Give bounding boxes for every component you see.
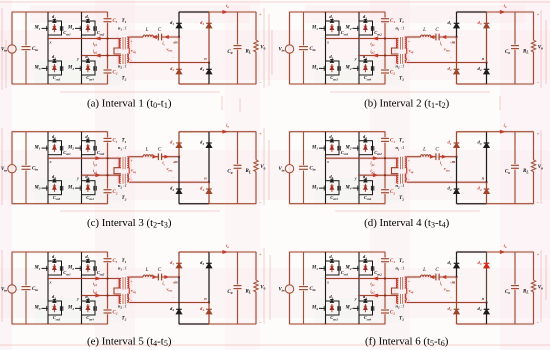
panel a: wire bottom rail left section <box>12 83 108 85</box>
svg-text:M1: M1 <box>33 26 40 31</box>
svg-text::1: :1 <box>123 304 127 309</box>
panel b: diode d4 <box>484 69 490 74</box>
panel c: MOSFET M_4 body diode <box>86 184 90 192</box>
panel b: MOSFET M_4 cell box <box>359 61 373 75</box>
svg-text:M4: M4 <box>344 66 351 71</box>
svg-text:M2: M2 <box>344 145 351 150</box>
panel e: diode d4 <box>206 309 212 314</box>
panel a: current arrow io <box>223 10 228 13</box>
panel c: transformer T2 <box>119 174 129 184</box>
svg-text:M2: M2 <box>67 266 74 271</box>
panel d: current arrow io <box>500 130 505 133</box>
panel c: diode d_2 on cell top <box>86 139 89 142</box>
panel d: wire T2 secondary return to node n <box>407 181 487 183</box>
panel a: wire T1 secondary to T2 secondary <box>128 48 130 54</box>
panel e: snubber capacitor plates of C_sn3 <box>60 306 62 311</box>
panel a: diode d_3 on cell top <box>53 60 56 63</box>
svg-text:Co: Co <box>227 170 232 175</box>
svg-text:Cin: Cin <box>309 287 315 292</box>
panel b: current arrow ip2 <box>373 54 378 57</box>
svg-text::1: :1 <box>401 304 405 309</box>
panel e: label vrec with polarity <box>166 281 174 300</box>
panel b: wire output top rail <box>487 11 534 13</box>
panel b: wire bridge leg A <box>325 12 327 84</box>
svg-text:Cin: Cin <box>32 167 38 172</box>
panel f: voltage source Vin <box>285 252 293 324</box>
panel b: diode d1 <box>454 23 460 28</box>
svg-text:x: x <box>326 40 329 45</box>
panel b: wire T1 primary to T2 primary <box>392 48 399 54</box>
panel c: MOSFET M_1 body diode <box>53 144 57 152</box>
panel f: wire T2 secondary return to node n <box>407 302 487 304</box>
panel b: diode d_2 on cell top <box>364 20 367 23</box>
svg-text:C1: C1 <box>113 259 118 264</box>
svg-text:Vo: Vo <box>260 286 265 291</box>
panel b: MOSFET M_2 cell box <box>359 21 373 35</box>
panel d: wire output top rail <box>487 131 534 133</box>
panel c: MOSFET M_4 gate lead <box>75 186 82 191</box>
svg-text:M3: M3 <box>33 66 40 71</box>
svg-text:Vin: Vin <box>1 48 7 53</box>
panel b: wire rectifier right leg lower <box>486 63 488 85</box>
panel b: MOSFET M_3 cell box <box>326 61 340 75</box>
panel c: capacitor Co <box>234 132 242 204</box>
panel f: transformer T2 <box>397 294 407 304</box>
panel a: MOSFET M_3 cell box <box>48 61 62 75</box>
panel d: inductor L <box>421 155 432 157</box>
panel d: wire node y to T2 primary <box>359 174 398 176</box>
panel e: wire output bottom rail <box>209 323 256 325</box>
panel c: wire rectifier right leg lower <box>208 182 210 204</box>
panel c: junction dots <box>106 156 210 184</box>
panel c: wire node y to T2 primary <box>82 174 121 176</box>
svg-text:RL: RL <box>246 50 252 55</box>
panel a: diode d_1 on cell top <box>53 20 56 23</box>
panel e: pink glow under circuit <box>12 252 256 324</box>
panel a: pink glow under circuit <box>12 12 256 84</box>
panel d: MOSFET M_2 cell box <box>359 141 373 155</box>
panel e: transformer T1 <box>119 277 129 290</box>
svg-text:−: − <box>450 296 452 300</box>
panel e: voltage source Vin <box>8 252 16 324</box>
svg-text:−: − <box>172 56 174 60</box>
svg-text:Vin: Vin <box>278 48 284 53</box>
panel b: diode d2 <box>454 69 460 74</box>
svg-text:Co: Co <box>505 50 510 55</box>
panel a: MOSFET M_2 cell box <box>82 21 96 35</box>
panel b: wire bridge leg B <box>358 12 360 84</box>
panel e: MOSFET M_4 gate lead <box>75 306 82 311</box>
panel a: capacitor C2 branch <box>104 56 112 85</box>
panel b: current arrow is right of C <box>442 35 446 38</box>
panel a: MOSFET M_3 gate lead <box>42 66 49 71</box>
panel e: wire output top rail <box>209 251 256 253</box>
svg-text:−: − <box>172 296 174 300</box>
svg-text:m: m <box>174 280 178 285</box>
panel e: diode d_2 on cell top <box>86 260 89 263</box>
panel d: diode d_2 on cell top <box>364 139 367 142</box>
panel a: wire C to node m <box>162 36 179 38</box>
panel b: capacitor Co <box>511 12 519 84</box>
panel a: snubber capacitor plates of C_sn4 <box>94 66 96 71</box>
panel b: MOSFET M_4 body diode <box>364 64 368 72</box>
panel d: resistor RL <box>531 132 535 204</box>
panel e: MOSFET M_1 body diode <box>53 264 57 272</box>
svg-text::1: :1 <box>123 266 127 271</box>
panel d: diode d_4 on cell top <box>364 179 367 182</box>
panel c: diode d_1 on cell top <box>53 139 56 142</box>
panel e: capacitor C <box>158 274 161 281</box>
panel b: wire between node wires on clamp line <box>384 39 386 56</box>
svg-text:Vo: Vo <box>260 46 265 51</box>
panel a: wire output bottom rail <box>209 83 256 85</box>
panel b: diode d_4 on cell top <box>364 60 367 63</box>
panel b: MOSFET M_3 gate lead <box>319 66 326 71</box>
panel f: wire T1 primary to T2 primary <box>392 288 399 294</box>
panel e: current arrow io <box>223 250 228 253</box>
panel d: wire bottom rail left section <box>290 203 386 205</box>
panel a: MOSFET M_3 body diode <box>53 64 57 72</box>
panel c: MOSFET M_2 body diode <box>86 144 90 152</box>
panel f: current arrow ip2 <box>373 294 378 297</box>
svg-text:C1: C1 <box>113 19 118 24</box>
panel b: wire top rail left section <box>290 11 386 13</box>
panel b: label vrec with polarity <box>444 41 452 60</box>
panel e: wire node x to T1 primary <box>48 278 121 280</box>
panel d: capacitor C1 branch <box>381 132 389 159</box>
panel f: wire node x to T1 primary <box>326 278 399 280</box>
svg-text:T1: T1 <box>122 19 127 24</box>
panel d: wire rectifier right leg lower <box>486 182 488 204</box>
panel f: junction dots <box>384 276 488 304</box>
panel a: MOSFET M_1 cell box <box>48 21 62 35</box>
panel d: voltage source Vin <box>285 132 293 204</box>
panel c: wire bridge leg B <box>81 132 83 204</box>
panel c: snubber capacitor plates of C_sn2 <box>94 146 96 151</box>
panel f: pink glow under circuit <box>290 252 534 324</box>
panel f: wire T1 secondary to T2 secondary <box>406 288 408 294</box>
panel b: wire rectifier left leg upper <box>456 12 458 37</box>
panel e: wire T2 secondary return to node n <box>129 302 209 304</box>
svg-text:x: x <box>48 159 51 164</box>
panel f: diode d_1 on cell top <box>330 260 333 263</box>
panel c: wire L to C <box>154 156 159 158</box>
panel c: MOSFET M_2 cell box <box>82 141 96 155</box>
panel e: wire T1 secondary to T2 secondary <box>128 288 130 294</box>
panel f: wire bottom rail left section <box>290 323 386 325</box>
panel b: wire rectifier right leg upper <box>486 12 488 63</box>
panel e: wire bottom rail left section <box>12 323 108 325</box>
panel e: diode d3 <box>206 263 212 268</box>
panel e: junction dots <box>106 276 210 304</box>
panel c: wire C to node m <box>162 156 179 158</box>
panel e: current arrow ip1 <box>96 277 101 280</box>
svg-text:T1: T1 <box>122 139 127 144</box>
panel b: MOSFET M_3 body diode <box>330 64 334 72</box>
svg-text:M4: M4 <box>67 306 74 311</box>
svg-text:M3: M3 <box>311 306 318 311</box>
panel e: capacitor C2 branch <box>104 296 112 325</box>
panel b: wire T1 secondary to L <box>407 36 421 38</box>
panel c: MOSFET M_2 gate lead <box>75 146 82 151</box>
panel e: diode d_1 on cell top <box>53 260 56 263</box>
svg-text:RL: RL <box>523 290 529 295</box>
panel e: transformer T2 <box>119 294 129 304</box>
panel b: diode d_3 on cell top <box>330 60 333 63</box>
panel e: current arrow ip2 <box>96 294 101 297</box>
svg-text:L: L <box>145 148 149 153</box>
panel f: MOSFET M_1 gate lead <box>319 266 326 271</box>
panel b: MOSFET M_2 gate lead <box>353 26 360 31</box>
panel d: wire rectifier left leg lower <box>456 157 458 204</box>
panel a: diode d_4 on cell top <box>86 60 89 63</box>
panel f: wire L to C <box>431 276 436 278</box>
svg-text:T1: T1 <box>399 259 404 264</box>
panel f: wire rectifier right leg upper <box>486 252 488 303</box>
svg-text:m: m <box>452 159 456 164</box>
panel f: wire C to node m <box>439 276 456 278</box>
panel a: snubber capacitor plates of C_sn3 <box>60 66 62 71</box>
svg-text:−: − <box>450 176 452 180</box>
panel c: wire top rail left section <box>12 131 108 133</box>
panel d: MOSFET M_1 cell box <box>326 141 340 155</box>
panel d: snubber capacitor plates of C_sn1 <box>338 146 340 151</box>
svg-text:Cin: Cin <box>32 47 38 52</box>
panel f: capacitor C2 branch <box>381 296 389 325</box>
panel b: wire bottom rail left section <box>290 83 386 85</box>
panel c: MOSFET M_1 cell box <box>48 141 62 155</box>
panel a: wire rectifier right leg lower <box>208 63 210 85</box>
panel b: diode d3 <box>484 23 490 28</box>
svg-text:L: L <box>422 268 426 273</box>
panel d: label vsq with polarity <box>408 158 414 182</box>
svg-text::1: :1 <box>401 26 405 31</box>
panel f: transformer T1 <box>397 277 407 290</box>
panel e: MOSFET M_3 cell box <box>48 301 62 315</box>
svg-text:L: L <box>422 28 426 33</box>
panel a: capacitor C1 branch <box>104 12 112 39</box>
panel e: wire top rail left section <box>12 251 108 253</box>
panel f: wire top rail left section <box>290 251 386 253</box>
panel f: wire rectifier bottom segment <box>457 323 487 325</box>
svg-text:C2: C2 <box>113 190 118 195</box>
panel a: wire bridge leg A <box>47 12 49 84</box>
panel a: wire between node wires on clamp line <box>107 39 109 56</box>
svg-text:M1: M1 <box>311 145 318 150</box>
svg-text:m: m <box>174 40 178 45</box>
panel f: wire node y to T2 primary <box>359 295 398 297</box>
svg-text:T2: T2 <box>399 317 404 322</box>
panel e: snubber capacitor plates of C_sn2 <box>94 266 96 271</box>
panel c: snubber capacitor plates of C_sn3 <box>60 186 62 191</box>
panel b: wire rectifier bottom segment <box>457 83 487 85</box>
panel b: snubber capacitor plates of C_sn2 <box>371 26 373 31</box>
panel f: diode d3 <box>484 263 490 268</box>
panel a: transformer T1 <box>119 37 129 50</box>
svg-text:Cin: Cin <box>309 47 315 52</box>
svg-text:x: x <box>48 280 51 285</box>
panel a: MOSFET M_4 body diode <box>86 64 90 72</box>
panel f: diode d2 <box>454 309 460 314</box>
svg-text:M4: M4 <box>344 185 351 190</box>
panel e: wire rectifier right leg lower <box>208 303 210 325</box>
svg-text:(c) Interval 3 (t2-t3): (c) Interval 3 (t2-t3) <box>87 217 172 230</box>
panel c: diode d_4 on cell top <box>86 179 89 182</box>
panel f: current arrow ip1 <box>373 277 378 280</box>
svg-text::1: :1 <box>401 183 405 188</box>
panel e: current arrow is right of C <box>165 275 169 278</box>
panel d: wire T1 secondary to T2 secondary <box>406 168 408 174</box>
panel f: wire bridge leg A <box>325 252 327 324</box>
panel f: MOSFET M_4 gate lead <box>353 306 360 311</box>
panel d: diode d1 <box>454 143 460 148</box>
panel a: current arrow is left of C <box>153 35 157 38</box>
svg-text:C1: C1 <box>390 139 395 144</box>
panel f: snubber capacitor plates of C_sn2 <box>371 266 373 271</box>
panel e: wire node y to T2 primary <box>82 295 121 297</box>
panel d: snubber capacitor plates of C_sn4 <box>371 186 373 191</box>
panel f: label vsq with polarity <box>408 279 414 303</box>
panel c: wire output bottom rail <box>209 203 256 205</box>
panel b: wire rectifier top segment <box>457 11 487 13</box>
panel c: current arrow is left of C <box>153 155 157 158</box>
svg-text:Vin: Vin <box>278 167 284 172</box>
panel d: wire rectifier top segment <box>457 131 487 133</box>
panel b: transformer T1 <box>397 37 407 50</box>
panel b: MOSFET M_1 body diode <box>330 24 334 32</box>
panel c: snubber capacitor plates of C_sn1 <box>60 146 62 151</box>
svg-text:Vin: Vin <box>278 288 284 293</box>
panel c: wire rectifier top segment <box>179 131 209 133</box>
panel b: MOSFET M_2 body diode <box>364 24 368 32</box>
panel e: wire T1 secondary to L <box>129 276 143 278</box>
panel c: diode d_3 on cell top <box>53 179 56 182</box>
panel f: wire T1 secondary to L <box>407 276 421 278</box>
panel c: current arrow ip2 <box>96 174 101 177</box>
panel f: MOSFET M_1 body diode <box>330 264 334 272</box>
panel c: MOSFET M_3 cell box <box>48 181 62 195</box>
panel f: MOSFET M_1 cell box <box>326 261 340 275</box>
svg-text:T2: T2 <box>122 317 127 322</box>
panel b: pink glow under circuit <box>290 12 534 84</box>
panel a: diode d2 <box>176 69 182 74</box>
panel f: diode d_3 on cell top <box>330 300 333 303</box>
panel d: pink glow under circuit <box>290 132 534 204</box>
panel b: capacitor Cin <box>299 12 308 84</box>
panel e: diode d2 <box>176 309 182 314</box>
panel a: wire rectifier left leg upper <box>178 12 180 37</box>
panel d: wire bridge leg A <box>325 132 327 204</box>
svg-text:Co: Co <box>505 290 510 295</box>
panel d: MOSFET M_4 gate lead <box>353 186 360 191</box>
svg-text:Co: Co <box>227 290 232 295</box>
svg-text:Co: Co <box>227 50 232 55</box>
panel d: diode d4 <box>484 189 490 194</box>
panel d: label vrec with polarity <box>444 161 452 180</box>
panel e: wire bridge leg B <box>81 252 83 324</box>
panel b: wire L to C <box>431 36 436 38</box>
panel b: wire node y to T2 primary <box>359 55 398 57</box>
panel a: label vsq with polarity <box>130 39 136 63</box>
panel a: wire rectifier bottom segment <box>179 83 209 85</box>
panel e: diode d_3 on cell top <box>53 300 56 303</box>
panel a: wire output top rail <box>209 11 256 13</box>
svg-text:(b) Interval 2 (t1-t2): (b) Interval 2 (t1-t2) <box>364 97 449 110</box>
panel a: wire T2 secondary return to node n <box>129 62 209 64</box>
panel a: wire rectifier top segment <box>179 11 209 13</box>
panel e: current arrow is left of C <box>153 275 157 278</box>
panel a: wire bridge leg B <box>81 12 83 84</box>
panel f: snubber capacitor plates of C_sn1 <box>338 266 340 271</box>
panel b: diode d_1 on cell top <box>330 20 333 23</box>
svg-text:C2: C2 <box>113 311 118 316</box>
svg-text:M1: M1 <box>311 266 318 271</box>
svg-text:C1: C1 <box>390 19 395 24</box>
panel d: MOSFET M_2 body diode <box>364 144 368 152</box>
svg-text:M1: M1 <box>33 145 40 150</box>
panel a: diode d3 <box>206 23 212 28</box>
panel f: MOSFET M_2 cell box <box>359 261 373 275</box>
panel e: wire L to C <box>154 276 159 278</box>
panel a: diode d_2 on cell top <box>86 20 89 23</box>
panel c: voltage source Vin <box>8 132 16 204</box>
panel a: inductor L <box>143 35 154 37</box>
panel c: wire bridge leg A <box>47 132 49 204</box>
panel e: diode d1 <box>176 263 182 268</box>
svg-text:M4: M4 <box>67 185 74 190</box>
panel d: snubber capacitor plates of C_sn3 <box>338 186 340 191</box>
panel b: wire node x to T1 primary <box>326 38 399 40</box>
panel d: wire top rail left section <box>290 131 386 133</box>
panel f: wire output top rail <box>487 251 534 253</box>
panel f: wire rectifier top segment <box>457 251 487 253</box>
panel c: current arrow io <box>223 130 228 133</box>
svg-text:L: L <box>145 268 149 273</box>
panel b: label vsq with polarity <box>408 39 414 63</box>
panel b: MOSFET M_1 gate lead <box>319 26 326 31</box>
panel b: wire rectifier left leg lower <box>456 37 458 84</box>
panel d: current arrow is left of C <box>430 155 434 158</box>
panel a: MOSFET M_1 body diode <box>53 24 57 32</box>
panel f: diode d_2 on cell top <box>364 260 367 263</box>
panel d: MOSFET M_1 gate lead <box>319 146 326 151</box>
svg-text:M1: M1 <box>311 26 318 31</box>
svg-text:C2: C2 <box>390 311 395 316</box>
svg-text:Cin: Cin <box>309 167 315 172</box>
panel f: wire rectifier left leg lower <box>456 277 458 324</box>
panel c: wire T1 secondary to L <box>129 156 143 158</box>
panel c: current arrow is right of C <box>165 155 169 158</box>
panel b: snubber capacitor plates of C_sn1 <box>338 26 340 31</box>
panel e: snubber capacitor plates of C_sn4 <box>94 306 96 311</box>
svg-text:Vin: Vin <box>1 288 7 293</box>
panel b: MOSFET M_1 cell box <box>326 21 340 35</box>
svg-text:(a) Interval 1 (t0-t1): (a) Interval 1 (t0-t1) <box>87 97 172 110</box>
panel c: snubber capacitor plates of C_sn4 <box>94 186 96 191</box>
panel d: wire C to node m <box>439 156 456 158</box>
panel d: capacitor C2 branch <box>381 175 389 204</box>
panel d: capacitor Cin <box>299 132 308 204</box>
panel a: current arrow is right of C <box>165 35 169 38</box>
panel d: wire output bottom rail <box>487 203 534 205</box>
panel c: wire rectifier left leg lower <box>178 157 180 204</box>
panel a: MOSFET M_2 body diode <box>86 24 90 32</box>
panel a: capacitor Cin <box>22 12 31 84</box>
svg-text:T1: T1 <box>399 19 404 24</box>
panel d: wire node x to T1 primary <box>326 157 399 159</box>
panel e: MOSFET M_4 cell box <box>82 301 96 315</box>
svg-text:−: − <box>172 176 174 180</box>
